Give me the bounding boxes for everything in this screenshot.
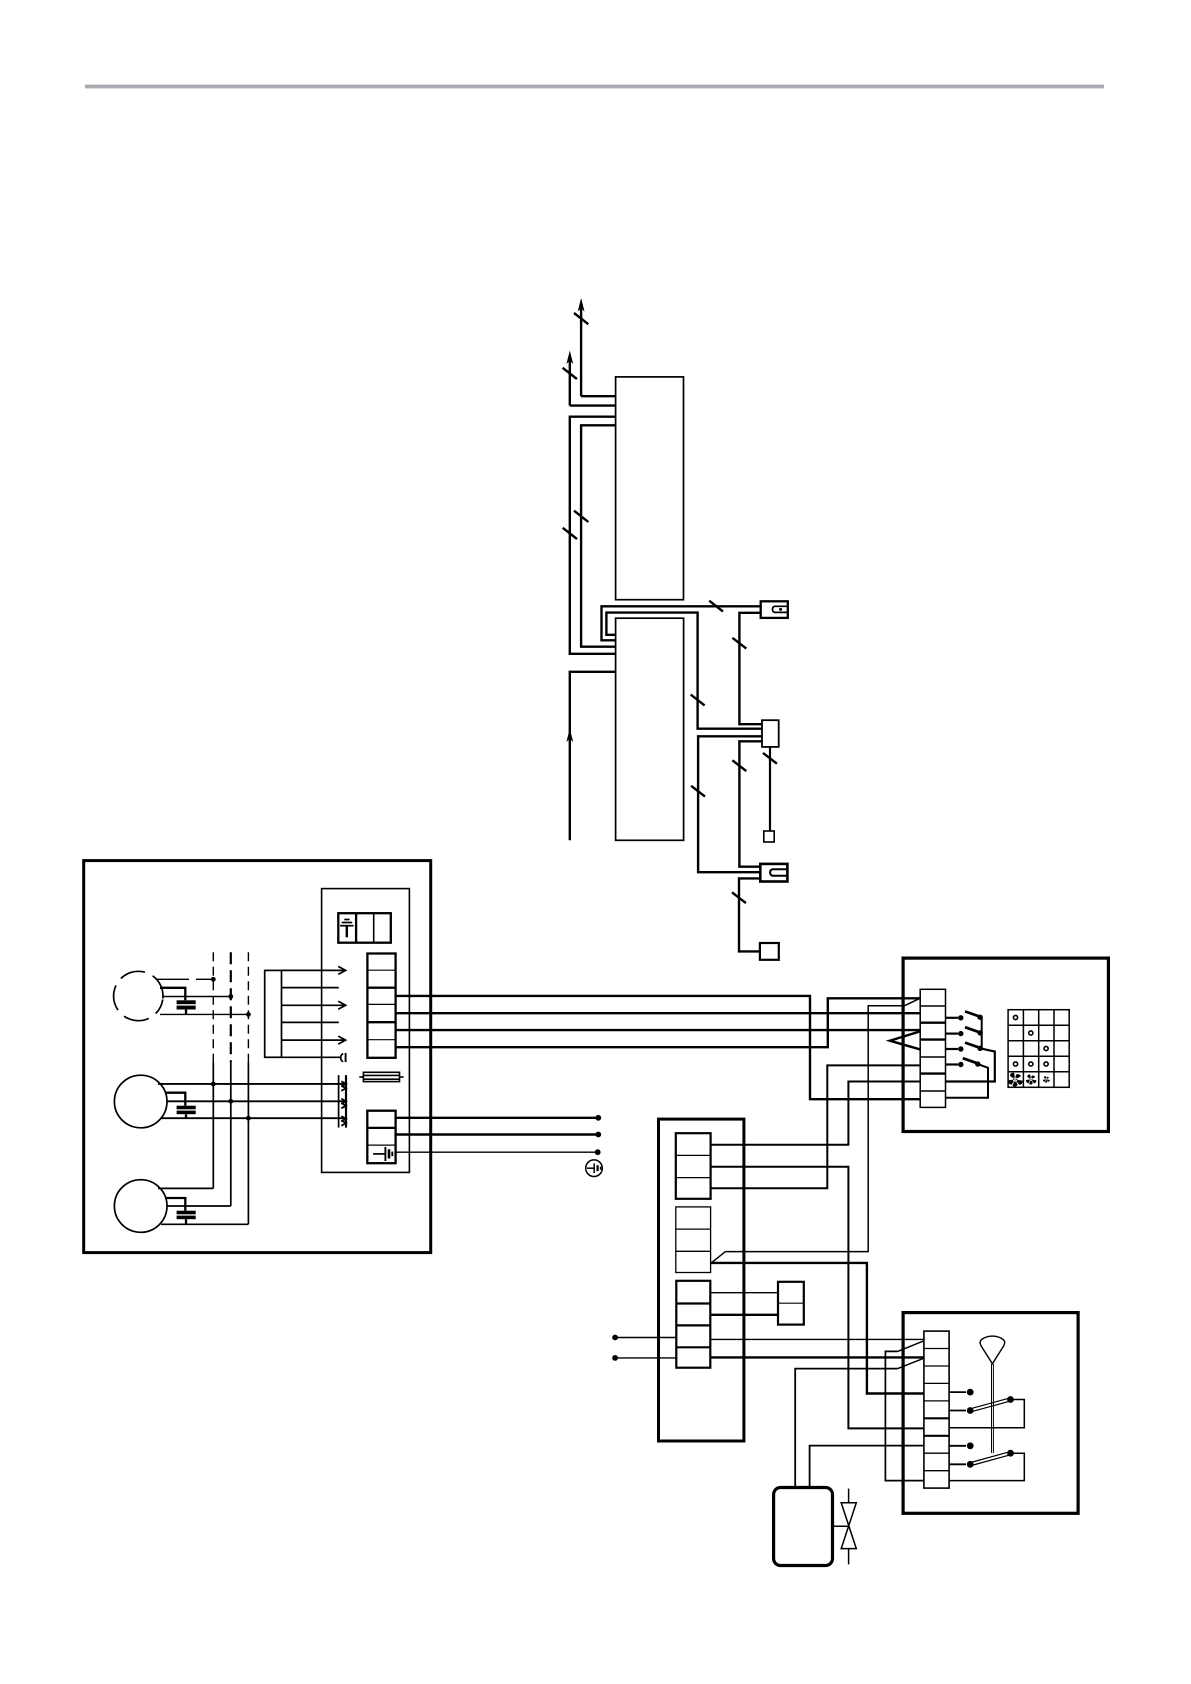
- wire R5 sensor stub 1: [618, 1337, 677, 1339]
- wire Q2 TB3 to TB5: [711, 1263, 924, 1394]
- relay block RY on board: [338, 913, 391, 943]
- capacitor C1: [177, 1000, 196, 1004]
- slash on L2: [563, 368, 577, 379]
- wire return R1: [570, 417, 616, 654]
- wire Q4 TBA to TB5 cell6: [711, 1167, 924, 1429]
- wire R7 TB4 to TB5 cell1: [710, 1338, 924, 1340]
- FS1 blade (double line): [973, 1398, 1010, 1411]
- box K1 upper unit: [616, 377, 684, 600]
- slash on R1: [563, 528, 577, 539]
- SW3 return wire: [946, 1048, 995, 1081]
- motor M3: [114, 1180, 167, 1233]
- connector CN1: [761, 601, 788, 618]
- fuse F1: [359, 1072, 403, 1081]
- slash on W2: [691, 695, 705, 706]
- wire R6 sensor stub 2: [618, 1357, 677, 1359]
- terminal strip TB1 on board: [367, 954, 395, 1058]
- box K2 lower unit: [616, 618, 684, 840]
- wire P2 TB1 to remote: [396, 1012, 921, 1014]
- earth wire 2: [396, 1133, 596, 1135]
- bus line 1 (dashed top): [212, 952, 214, 1062]
- fan icon large: [1008, 1073, 1022, 1087]
- enclosure: indoor unit box: [84, 861, 431, 1253]
- slash on S1-X1: [763, 753, 777, 764]
- slash on CN2-X2: [732, 892, 746, 903]
- table circle r1c1: [1013, 1015, 1017, 1019]
- M2 wire b to capacitor C2: [165, 1093, 185, 1106]
- M1 wire b to capacitor C1: [160, 988, 185, 1001]
- fan icon medium: [1026, 1075, 1036, 1085]
- chevron plug mark: [890, 1032, 920, 1050]
- header rule: [85, 85, 1104, 89]
- paddle stem double line: [991, 1364, 993, 1453]
- wire S1 to terminal X1: [769, 747, 771, 831]
- wire CN2 to terminal X2: [739, 878, 760, 951]
- compressor MC: [774, 1488, 833, 1566]
- wire compressor lead 1: [795, 1369, 898, 1488]
- slash on S1-CN2 left: [691, 786, 705, 797]
- thermostat box TH: [778, 1282, 804, 1325]
- wire compressor lead 2: [810, 1446, 924, 1488]
- wire P1 TB1 to remote (crossover down): [396, 996, 921, 1099]
- pin 3 wire: [282, 1004, 346, 1006]
- wire L2 supply arrow: [570, 360, 616, 406]
- slash on S1-CN2 right: [732, 760, 746, 771]
- pin 4 wire: [282, 1021, 339, 1023]
- terminal strip TB4: [676, 1281, 710, 1368]
- terminal X1: [764, 831, 774, 842]
- table circles r4: [1013, 1062, 1017, 1066]
- earth terminal symbol: [586, 1160, 603, 1177]
- connector bars CN11: [338, 1075, 340, 1128]
- pin 5 wire: [282, 1039, 346, 1041]
- relay S1: [762, 720, 779, 747]
- fan speed table grid: [1008, 1010, 1069, 1088]
- wire R4 TB4-C2 thermostat: [710, 1314, 778, 1316]
- wire R3 TB4-C1 thermostat: [710, 1292, 778, 1294]
- wire S1 to connector CN2 right: [739, 741, 762, 866]
- diagonal entry compressor lead 1: [898, 1358, 924, 1368]
- bus line 2 (dashed top): [230, 952, 232, 1062]
- pin 6 wire shield: [282, 1056, 341, 1058]
- switch SW2: [946, 1032, 959, 1034]
- bus line 1 solid: [212, 1062, 214, 1188]
- earth wire 3: [396, 1151, 596, 1153]
- pin 2 wire: [282, 987, 339, 989]
- wire Q5 TBA to remote cell5: [711, 1065, 921, 1188]
- M2 wire c: [167, 1100, 347, 1102]
- M3 wire b to capacitor C3: [165, 1198, 185, 1211]
- junction box: terminal unit: [659, 1119, 744, 1441]
- wire P3 TB1 to remote: [396, 1029, 921, 1031]
- motor M2: [114, 1075, 167, 1128]
- M1 wire d: [160, 1013, 246, 1015]
- expansion valve lead bottom: [848, 1549, 850, 1565]
- relay coil symbol: [340, 920, 354, 938]
- slash on R2: [574, 511, 588, 522]
- wire S1 to connector CN2 left: [698, 736, 762, 872]
- M3 wire d: [161, 1223, 248, 1225]
- motor M1 fan (dashed): [110, 968, 166, 1024]
- remote terminal strip TBR: [920, 989, 945, 1107]
- switch SW3: [946, 1048, 959, 1050]
- M1 wire c: [162, 996, 229, 998]
- bus line 3 (dashed top): [247, 952, 249, 1062]
- terminal strip TB2 on board: [367, 1111, 395, 1164]
- wire return R2: [581, 425, 616, 646]
- wire Q3 TBA to remote cell6: [711, 1082, 921, 1145]
- connector CN10 header: [265, 970, 282, 1057]
- terminal strip TB5: [924, 1331, 949, 1488]
- remote controller box: [903, 958, 1108, 1131]
- earth wire 1: [396, 1117, 596, 1119]
- table circle r2c2: [1029, 1031, 1033, 1035]
- terminal strip TB3: [676, 1207, 711, 1273]
- terminal strip TBA: [676, 1133, 711, 1199]
- M2 wire d: [161, 1117, 346, 1119]
- slash on W1: [709, 601, 723, 612]
- slash on L1: [574, 313, 588, 324]
- wire K2 drop arrow: [570, 672, 615, 841]
- M2 wire a: [158, 1083, 346, 1085]
- bus line 2 solid: [230, 1062, 232, 1206]
- chevrons CN11: [341, 1081, 346, 1125]
- FS1 return wire: [949, 1400, 1024, 1428]
- table circle r3c3: [1044, 1046, 1048, 1050]
- FS2 return wire: [949, 1453, 1024, 1480]
- wire CN1 to relay S1: [739, 613, 762, 724]
- wire W1 to connector CN1: [602, 606, 761, 640]
- capacitor C2: [177, 1106, 196, 1110]
- connector CN2: [760, 864, 787, 882]
- fan coil unit box: [903, 1313, 1078, 1514]
- bus line 3 solid: [247, 1062, 249, 1224]
- ground symbol in TB2: [373, 1147, 392, 1161]
- diagonal TB3 exit Q1: [711, 1252, 725, 1264]
- wire Q1 interlock riser: [725, 1006, 904, 1252]
- SW4 return wire: [946, 1064, 989, 1098]
- wire jumper Va cell1-cell9: [885, 1351, 924, 1480]
- diagonal entry Q1: [905, 998, 920, 1005]
- wire P4 TB1 to remote (crossover up): [396, 998, 921, 1047]
- M1 wire a: [156, 978, 189, 980]
- control board box: [322, 889, 410, 1173]
- terminal X2: [760, 943, 779, 960]
- slash on CN1 link: [732, 638, 746, 649]
- switch SW4: [946, 1063, 959, 1065]
- fan paddle symbol: [980, 1336, 1005, 1364]
- fan switch FS1: [949, 1391, 966, 1393]
- fan icon small: [1043, 1076, 1050, 1083]
- FS2 blade (double line): [973, 1452, 1010, 1465]
- wire L1 supply arrow: [581, 308, 616, 396]
- switch SW1: [946, 1017, 959, 1019]
- wire W2 to relay S1: [606, 613, 762, 729]
- capacitor C3: [177, 1211, 196, 1215]
- valve stub to compressor: [833, 1525, 849, 1527]
- M3 wire c: [167, 1205, 231, 1207]
- expansion valve lead top: [848, 1489, 850, 1503]
- wire R8 TB4 to TB5 cell2: [710, 1356, 924, 1358]
- switch chain link: [981, 1017, 983, 1048]
- M3 wire a: [158, 1187, 213, 1189]
- pin 1 wire: [282, 969, 346, 971]
- diagonal entry Va: [898, 1341, 923, 1351]
- expansion valve body: [841, 1503, 856, 1549]
- fan switch FS2: [949, 1445, 966, 1447]
